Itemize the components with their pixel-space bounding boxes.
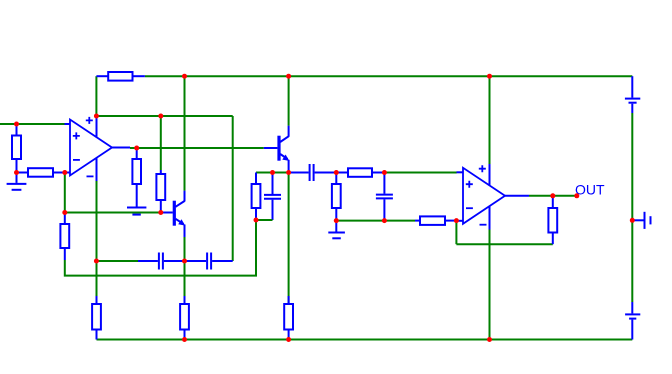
node cap row left: [94, 259, 99, 264]
wire op1 V+: [96, 115, 232, 117]
wire right drop from V+ row: [232, 116, 234, 261]
resistor R1: [96, 72, 144, 81]
wire top-left riser: [95, 76, 97, 116]
resistor R6: [60, 213, 69, 261]
node R8 top: [334, 170, 339, 175]
resistor R3: [17, 168, 65, 177]
svg-text:OUT: OUT: [575, 182, 605, 198]
node rail R13: [182, 337, 187, 342]
wire mid row to op2: [384, 172, 456, 174]
ground G3: [328, 221, 345, 239]
node R8 bottom: [334, 218, 339, 223]
op-amp U1: [65, 116, 131, 181]
wire Q2 collector riser: [184, 76, 186, 190]
node C5 bottom: [382, 218, 387, 223]
wire op2 output: [529, 195, 577, 197]
battery V3 cell tap: [632, 212, 650, 229]
node RC bottom: [254, 218, 259, 223]
resistor R4: [132, 148, 141, 207]
battery V1: [625, 76, 640, 113]
node op1 V+: [94, 114, 99, 119]
wire feedback row: [456, 243, 552, 245]
wire top rail: [145, 75, 632, 77]
node C4 top: [270, 170, 275, 175]
wire cap row left: [96, 260, 138, 262]
op-amp U2: [456, 164, 529, 230]
capacitor C3: [289, 164, 337, 181]
resistor R9: [336, 168, 384, 177]
node wire116 R5: [158, 114, 163, 119]
resistor R2: [12, 124, 21, 173]
wire op1 V- rail drop: [96, 181, 98, 304]
capacitor C2: [186, 253, 233, 270]
wire bottom rail: [97, 339, 633, 341]
wire Q1 collector riser: [288, 76, 290, 125]
wire emitter row: [256, 172, 289, 174]
node Q2 base: [158, 210, 163, 215]
capacitor C5: [376, 173, 393, 221]
wire Q2 emitter drop: [184, 237, 186, 304]
transistor Q1: [264, 126, 290, 173]
wire op2 feedback riser: [455, 221, 457, 245]
wire bottom mid row: [336, 220, 415, 222]
wire battery mid: [631, 113, 633, 302]
node Q1 emitter: [286, 170, 291, 175]
wire Q1 emitter drop: [288, 173, 290, 305]
capacitor C1: [138, 253, 184, 270]
node op2 minus: [454, 218, 459, 223]
wire op2 V- drop: [489, 230, 491, 340]
node rail Q1 collector: [286, 74, 291, 79]
resistor R8: [332, 173, 341, 221]
resistor R7: [252, 173, 261, 221]
node dots: [14, 74, 635, 342]
ground G1: [7, 173, 27, 190]
resistor R13: [180, 296, 189, 340]
wire input: [0, 123, 65, 125]
wire op1 output: [130, 147, 264, 149]
capacitor C4: [264, 173, 281, 221]
node C5 top: [382, 170, 387, 175]
node rail op2 V-: [487, 337, 492, 342]
transistor Q2: [163, 191, 185, 237]
node rail R14: [286, 337, 291, 342]
resistor R11: [548, 196, 557, 244]
wire R6 bottom path: [65, 220, 256, 276]
resistor R10: [415, 216, 456, 225]
resistor R5: [156, 170, 165, 213]
node R2 bottom: [14, 170, 19, 175]
node input dot: [14, 122, 19, 127]
node battery tap: [630, 218, 635, 223]
node op1 out: [134, 146, 139, 151]
node op2 out: [550, 193, 555, 198]
node op1 minus: [62, 170, 67, 175]
battery V2: [625, 302, 640, 340]
node cap row mid: [182, 259, 187, 264]
node rail op2 V+: [487, 74, 492, 79]
wire RC bottom: [256, 219, 273, 221]
node rail Q2 collector: [182, 74, 187, 79]
resistor R12: [92, 296, 101, 340]
wire R5 column: [160, 116, 162, 170]
ground G2: [127, 208, 146, 215]
resistor R14: [284, 296, 293, 340]
wire base row: [65, 212, 161, 214]
wire op2 V+ riser: [489, 76, 491, 164]
wire minus-node drop: [64, 173, 66, 213]
node base row left: [62, 210, 67, 215]
node OUT terminal: [574, 193, 579, 198]
